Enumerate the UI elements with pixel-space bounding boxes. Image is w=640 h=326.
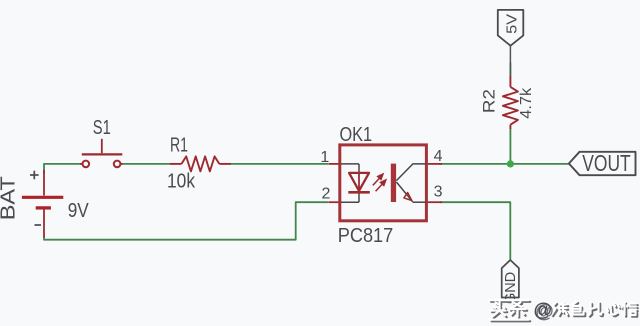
- svg-text:BAT: BAT: [0, 176, 19, 220]
- svg-text:9V: 9V: [68, 200, 90, 222]
- svg-text:PC817: PC817: [338, 225, 394, 247]
- svg-text:R2: R2: [480, 89, 498, 113]
- svg-text:4.7k: 4.7k: [518, 88, 535, 119]
- svg-text:R1: R1: [170, 135, 188, 157]
- svg-text:10k: 10k: [167, 171, 196, 193]
- svg-text:3: 3: [434, 184, 443, 201]
- svg-text:OK1: OK1: [340, 124, 373, 146]
- svg-text:@: @: [534, 300, 553, 321]
- svg-text:4: 4: [434, 148, 443, 165]
- svg-text:1: 1: [320, 149, 329, 166]
- svg-text:S1: S1: [93, 117, 111, 139]
- svg-text:2: 2: [321, 186, 330, 203]
- svg-text:VOUT: VOUT: [582, 150, 630, 176]
- svg-text:5V: 5V: [504, 14, 520, 34]
